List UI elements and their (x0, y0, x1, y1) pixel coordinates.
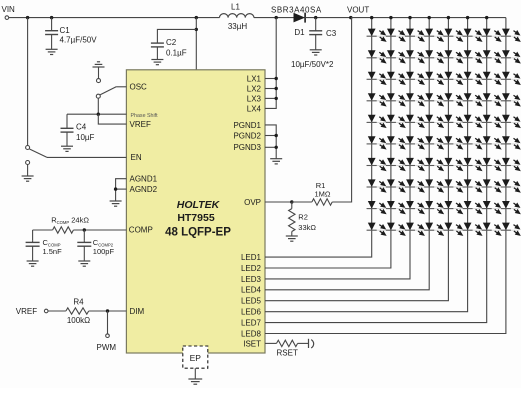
LED row 5 col 2 (386, 115, 405, 127)
LED row 9 col 3 (405, 201, 424, 213)
wire IN (195, 18, 197, 70)
LED row 10 col 7 (482, 223, 501, 235)
svg-text:HT7955: HT7955 (177, 212, 215, 224)
op-amp U1 HT7955 chip body (126, 70, 265, 353)
junction IN (195, 16, 198, 19)
LED row 10 col 6 (463, 223, 482, 235)
LED row 6 col 6 (463, 136, 482, 148)
LED row 8 col 7 (482, 179, 501, 191)
terminal PWM (106, 334, 110, 338)
LED row 10 col 5 (443, 223, 462, 235)
svg-text:HOLTEK: HOLTEK (177, 199, 221, 211)
svg-text:VOUT: VOUT (347, 5, 369, 14)
LED row 9 col 5 (443, 201, 462, 213)
svg-text:VREF: VREF (16, 307, 37, 316)
LED row 7 col 4 (424, 158, 443, 170)
svg-text:LED7: LED7 (241, 318, 262, 327)
wire R4 to DIM (89, 310, 127, 312)
LED row 5 col 5 (443, 115, 462, 127)
resistor R4 (66, 308, 89, 314)
ground OSC switch (93, 62, 105, 67)
svg-text:LED3: LED3 (241, 275, 262, 284)
wire Phase Shift (67, 113, 126, 115)
junction AGND (114, 187, 117, 190)
terminal VIN (5, 16, 9, 20)
junction PWM (106, 309, 109, 312)
LED row 1 col 7 (482, 29, 501, 41)
wire LED column 2 (265, 18, 391, 268)
wire LX2 (265, 88, 276, 90)
wire AGND2 (116, 188, 127, 190)
LED row 7 col 3 (405, 158, 424, 170)
wire PGND2 (265, 135, 276, 137)
LED row 10 col 4 (424, 223, 443, 235)
ground C4 (61, 146, 73, 151)
wire RSET to ground (298, 342, 309, 344)
LED row 8 col 2 (386, 179, 405, 191)
LED row 7 col 1 (367, 158, 386, 170)
svg-text:VREF: VREF (130, 120, 151, 129)
junction VOUT (349, 16, 352, 19)
wire LED column 7 (265, 18, 487, 323)
LED row 5 col 3 (405, 115, 424, 127)
LED row 4 col 2 (386, 93, 405, 105)
wire OSC (116, 86, 126, 88)
wire VREF to R4 (48, 310, 66, 312)
LED row 2 col 8 (501, 50, 520, 62)
wire C2 branch (157, 29, 196, 41)
LED row 2 col 4 (424, 50, 443, 62)
svg-text:EN: EN (131, 153, 142, 162)
wire switch to VREF node (97, 98, 99, 114)
LED row 10 col 3 (405, 223, 424, 235)
svg-text:1.5nF: 1.5nF (43, 247, 63, 256)
wire AGND1 (116, 179, 127, 201)
junction VIN-EN branch (26, 16, 29, 19)
resistor RSET (277, 340, 298, 346)
svg-text:C4: C4 (76, 123, 87, 132)
LED row 9 col 2 (386, 201, 405, 213)
LED row 1 col 2 (386, 29, 405, 41)
LED row 2 col 6 (463, 50, 482, 62)
wire LX1 (265, 78, 276, 80)
svg-text:PGND3: PGND3 (233, 143, 261, 152)
ground R2 (286, 236, 298, 241)
svg-text:1MΩ: 1MΩ (314, 190, 330, 199)
svg-text:10µF: 10µF (76, 133, 95, 142)
inductor L1 (220, 14, 254, 18)
wire LED column 1 (265, 18, 372, 258)
wire LX bus (265, 18, 276, 109)
svg-text:LED4: LED4 (241, 286, 262, 295)
junction LX node (275, 16, 278, 19)
LED row 2 col 3 (405, 50, 424, 62)
wire PGND bus (265, 125, 276, 159)
wire LED column 4 (265, 18, 429, 290)
ground C3 (310, 50, 322, 55)
LED row 4 col 4 (424, 93, 443, 105)
svg-text:33kΩ: 33kΩ (298, 223, 316, 232)
LED row 5 col 1 (367, 115, 386, 127)
LED row 6 col 4 (424, 136, 443, 148)
junction CCOMP2 (83, 228, 86, 231)
svg-text:LED6: LED6 (241, 308, 262, 317)
terminal VREF (44, 309, 48, 313)
junction C1 (50, 16, 53, 19)
LED row 1 col 6 (463, 29, 482, 41)
wire COMP (33, 229, 53, 231)
ground C2 (151, 60, 163, 65)
LED row 5 col 7 (482, 115, 501, 127)
svg-text:4.7µF/50V: 4.7µF/50V (60, 36, 98, 45)
wire ground to switch (98, 67, 100, 79)
LED row 4 col 1 (367, 93, 386, 105)
svg-text:LED8: LED8 (241, 329, 262, 338)
wire VOUT rail to LED matrix (351, 17, 506, 19)
LED row 4 col 8 (501, 93, 520, 105)
junction column 3 top (408, 16, 411, 19)
LED row 3 col 6 (463, 72, 482, 84)
svg-text:LX1: LX1 (247, 74, 262, 83)
LED row 7 col 5 (443, 158, 462, 170)
svg-text:VIN: VIN (2, 5, 16, 14)
svg-text:LX4: LX4 (247, 104, 262, 113)
svg-text:L1: L1 (231, 3, 240, 12)
switch S2 contact upper (26, 146, 30, 150)
LED row 7 col 7 (482, 158, 501, 170)
svg-text:SBR3A40SA: SBR3A40SA (271, 5, 322, 14)
junction column 7 top (485, 16, 488, 19)
LED row 9 col 1 (367, 201, 386, 213)
switch S1 contact upper (97, 79, 101, 83)
LED row 8 col 4 (424, 179, 443, 191)
LED row 8 col 5 (443, 179, 462, 191)
LED row 10 col 8 (501, 223, 520, 235)
LED row 9 col 7 (482, 201, 501, 213)
junction VREF node (97, 113, 100, 116)
switch S1 contact lower (96, 94, 100, 98)
LED row 3 col 5 (443, 72, 462, 84)
LED row 6 col 2 (386, 136, 405, 148)
svg-text:EP: EP (190, 353, 202, 363)
wire LED column 8 (265, 18, 506, 334)
LED row 7 col 8 (501, 158, 520, 170)
svg-text:100pF: 100pF (93, 247, 115, 256)
LED row 8 col 6 (463, 179, 482, 191)
svg-text:COMP: COMP (129, 226, 153, 235)
svg-text:C1: C1 (60, 26, 71, 35)
junction column 4 top (428, 16, 431, 19)
wire EP to ground (194, 368, 196, 379)
LED row 5 col 8 (501, 115, 520, 127)
svg-text:OVP: OVP (244, 198, 261, 207)
svg-text:R4: R4 (73, 297, 84, 306)
junction C2 branch (195, 28, 198, 31)
wire EN (47, 156, 126, 158)
ground EP (188, 379, 202, 384)
wire OVP (265, 201, 292, 203)
LED row 8 col 3 (405, 179, 424, 191)
LED row 6 col 5 (443, 136, 462, 148)
ground AGND (110, 201, 122, 206)
resistor RCOMP (53, 227, 74, 233)
resistor R1 (312, 199, 332, 205)
LED row 8 col 1 (367, 179, 386, 191)
LED row 6 col 7 (482, 136, 501, 148)
LED row 4 col 5 (443, 93, 462, 105)
svg-text:LED2: LED2 (241, 264, 262, 273)
svg-text:Phase Shift: Phase Shift (131, 113, 159, 119)
LED row 1 col 4 (424, 29, 443, 41)
switch S1 blade (100, 87, 116, 95)
LED row 4 col 3 (405, 93, 424, 105)
svg-text:AGND1: AGND1 (130, 175, 158, 184)
LED row 4 col 7 (482, 93, 501, 105)
wire VIN rail (9, 17, 220, 19)
LED row 4 col 6 (463, 93, 482, 105)
wire PGND3 (265, 146, 276, 148)
capacitor C4 (61, 114, 74, 146)
ground C1 (46, 49, 58, 54)
capacitor C2 (151, 42, 164, 60)
LED row 9 col 6 (463, 201, 482, 213)
capacitor C3 (309, 18, 322, 50)
junction column 6 top (466, 16, 469, 19)
svg-text:C2: C2 (166, 38, 177, 47)
LED row 3 col 8 (501, 72, 520, 84)
ground CCOMP2 (78, 261, 90, 266)
wire LED column 5 (265, 18, 448, 301)
svg-text:OSC: OSC (130, 83, 148, 92)
diode D1 SBR3A40SA (294, 13, 306, 23)
junction C3 (314, 16, 317, 19)
LED row 1 col 1 (367, 29, 386, 41)
ground RSET (309, 339, 314, 348)
junction column 5 top (447, 16, 450, 19)
wire LED column 6 (265, 18, 468, 312)
svg-text:PGND2: PGND2 (233, 131, 261, 140)
LED row 6 col 8 (501, 136, 520, 148)
LED row 3 col 3 (405, 72, 424, 84)
svg-text:C3: C3 (326, 29, 337, 38)
wire LED column 3 (265, 18, 410, 279)
wire ISET (265, 342, 277, 344)
wire D1 to VOUT (305, 17, 351, 19)
svg-text:48 LQFP-EP: 48 LQFP-EP (165, 227, 231, 239)
LED row 7 col 2 (386, 158, 405, 170)
LED row 10 col 2 (386, 223, 405, 235)
LED row 3 col 2 (386, 72, 405, 84)
LED row 5 col 4 (424, 115, 443, 127)
svg-text:D1: D1 (294, 28, 305, 37)
LED row 5 col 6 (463, 115, 482, 127)
ground CCOMP (27, 261, 39, 266)
LED row 1 col 3 (405, 29, 424, 41)
LED row 2 col 5 (443, 50, 462, 62)
svg-text:PWM: PWM (97, 343, 117, 352)
wire VREF (98, 114, 126, 124)
LED row 2 col 2 (386, 50, 405, 62)
LED row 7 col 6 (463, 158, 482, 170)
svg-text:0.1µF: 0.1µF (166, 48, 187, 57)
svg-text:DIM: DIM (130, 307, 145, 316)
wire R2 to R1 (292, 201, 312, 203)
ground EN switch (22, 176, 34, 181)
capacitor C1 (45, 18, 58, 50)
LED row 1 col 5 (443, 29, 462, 41)
svg-text:33µH: 33µH (228, 22, 248, 31)
wire PWM (107, 311, 109, 334)
svg-text:AGND2: AGND2 (130, 185, 158, 194)
LED row 8 col 8 (501, 179, 520, 191)
capacitor CCOMP 1.5nF (32, 230, 34, 241)
switch S2 contact lower (26, 161, 30, 165)
LED row 3 col 1 (367, 72, 386, 84)
resistor R2 (291, 202, 293, 209)
LED row 10 col 1 (367, 223, 386, 235)
junction column 1 top (370, 16, 373, 19)
capacitor CCOMP2 100pF (83, 230, 85, 241)
wire R1 to VOUT (332, 18, 351, 202)
LED row 3 col 4 (424, 72, 443, 84)
ground PGND (270, 159, 282, 164)
junction R2 (290, 200, 293, 203)
svg-text:10µF/50V*2: 10µF/50V*2 (291, 60, 334, 69)
LED row 1 col 8 (501, 29, 520, 41)
junction column 2 top (389, 16, 392, 19)
svg-text:100kΩ: 100kΩ (67, 316, 90, 325)
LED row 6 col 1 (367, 136, 386, 148)
svg-text:PGND1: PGND1 (233, 121, 261, 130)
svg-text:ISET: ISET (243, 339, 261, 348)
LED row 2 col 7 (482, 50, 501, 62)
wire VIN to EN switch (27, 18, 29, 146)
LED matrix row guide lines (366, 35, 519, 37)
LED row 9 col 8 (501, 201, 520, 213)
switch S2 blade (30, 149, 48, 157)
LED row 6 col 3 (405, 136, 424, 148)
svg-text:R2: R2 (298, 213, 308, 222)
svg-text:LX2: LX2 (247, 84, 262, 93)
wire LX3 (265, 97, 276, 99)
LED row 3 col 7 (482, 72, 501, 84)
svg-text:LED1: LED1 (241, 253, 262, 262)
wire switch to ground (27, 165, 29, 177)
exposed pad EP (183, 346, 208, 368)
LED row 9 col 4 (424, 201, 443, 213)
LED row 2 col 1 (367, 50, 386, 62)
wire L1 to D1 (254, 17, 294, 19)
svg-text:LX3: LX3 (247, 94, 262, 103)
svg-text:RSET: RSET (277, 348, 298, 357)
svg-text:LED5: LED5 (241, 297, 262, 306)
